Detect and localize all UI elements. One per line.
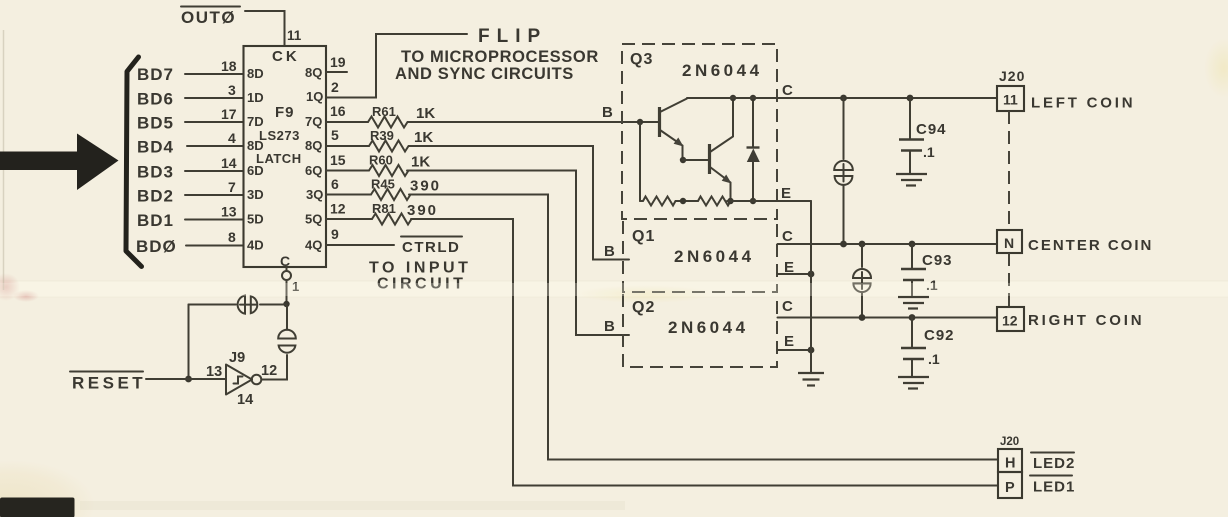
svg-text:C: C <box>280 253 290 269</box>
svg-text:14: 14 <box>221 155 237 171</box>
svg-text:R81: R81 <box>372 201 396 216</box>
svg-text:12: 12 <box>330 201 346 217</box>
svg-text:7: 7 <box>228 179 236 195</box>
junction P2 bottom on Q2 C rail <box>859 314 866 321</box>
svg-text:7D: 7D <box>247 114 264 129</box>
svg-text:19: 19 <box>330 54 346 70</box>
svg-text:E: E <box>784 333 794 350</box>
black crop bar bottom-left <box>0 498 75 517</box>
svg-text:C94: C94 <box>916 121 947 138</box>
svg-text:.1: .1 <box>923 144 935 160</box>
svg-text:.1: .1 <box>928 351 940 367</box>
svg-text:R39: R39 <box>370 128 394 143</box>
svg-text:12: 12 <box>261 363 277 379</box>
connector J20 pin 12 box <box>997 307 1024 331</box>
svg-text:BD5: BD5 <box>137 114 174 133</box>
transistor Q1 package (dashed box) <box>623 221 777 292</box>
connector pair P3 (horizontal) <box>238 296 258 314</box>
IC F9 LS273 latch body <box>244 46 327 267</box>
net label LED1 (active low) <box>1030 476 1075 496</box>
junction Q3b emitter on E rail <box>727 198 733 204</box>
svg-text:R60: R60 <box>369 153 393 168</box>
svg-text:390: 390 <box>410 178 441 195</box>
svg-text:8: 8 <box>228 229 236 245</box>
wire BD7 to pin 18 <box>185 73 244 75</box>
resistor R39 <box>369 141 409 152</box>
svg-text:8D: 8D <box>247 138 264 153</box>
wire RESET to inverter input <box>146 378 226 380</box>
svg-text:H: H <box>1005 456 1015 472</box>
annotation arrow (data bus pointer) <box>0 134 119 191</box>
resistor R81 <box>372 214 412 225</box>
connector J20 pin 11 box <box>997 86 1024 111</box>
svg-text:CTRLD: CTRLD <box>402 239 460 256</box>
transistor Q3a base bar <box>658 107 661 137</box>
wire pin 9 to CTRLD <box>326 244 394 246</box>
svg-text:12: 12 <box>1002 313 1018 329</box>
svg-text:E: E <box>781 185 791 202</box>
svg-text:6D: 6D <box>247 163 264 178</box>
svg-text:C92: C92 <box>924 327 955 344</box>
svg-text:R61: R61 <box>372 104 396 119</box>
wire connector P4 to clear node <box>286 306 288 330</box>
wire R60 to Q2 base <box>407 171 629 336</box>
wire emitter ground leg <box>810 201 812 373</box>
svg-text:390: 390 <box>407 202 438 219</box>
svg-text:BD4: BD4 <box>137 138 174 157</box>
junction C92 top on Q2 C rail <box>909 314 916 321</box>
junction Q3b collector on C rail <box>730 95 736 101</box>
svg-text:J9: J9 <box>229 350 245 366</box>
wire node to connector P3 <box>260 304 287 306</box>
junction Q2 emitter on ground leg <box>808 347 815 354</box>
junction Q3a emitter resistor node <box>680 198 686 204</box>
svg-text:16: 16 <box>330 103 346 119</box>
connector pair P1 (vertical, with pin) <box>834 161 853 185</box>
diode D internal (E to C) <box>747 98 760 201</box>
svg-text:5D: 5D <box>247 212 264 227</box>
svg-text:C: C <box>782 298 793 315</box>
svg-text:C: C <box>782 82 793 99</box>
svg-text:F9: F9 <box>275 104 295 121</box>
connector J20 pin N box <box>997 230 1022 253</box>
junction C94 top on Q3 C rail <box>907 95 914 102</box>
wire R39 to Q1 base <box>409 146 629 260</box>
svg-text:17: 17 <box>221 106 237 122</box>
svg-text:J20: J20 <box>1000 436 1019 448</box>
svg-text:AND SYNC CIRCUITS: AND SYNC CIRCUITS <box>395 65 574 83</box>
svg-text:Q1: Q1 <box>632 228 655 245</box>
svg-text:BD3: BD3 <box>137 163 174 182</box>
svg-text:13: 13 <box>206 364 222 380</box>
wire pin 5 to R39 <box>326 145 369 147</box>
capacitor C93 <box>901 244 926 297</box>
wire connector P3 to left leg <box>189 304 237 306</box>
svg-text:13: 13 <box>221 204 237 220</box>
pin 19 stub wire <box>326 71 347 73</box>
svg-text:OUTØ: OUTØ <box>181 8 236 27</box>
svg-text:1K: 1K <box>416 105 435 122</box>
svg-text:Q2: Q2 <box>632 299 655 316</box>
svg-text:BD7: BD7 <box>137 65 174 84</box>
wire pin 6 to R45 <box>326 194 371 196</box>
wire BD0 to pin 8 <box>186 245 244 247</box>
junction diode anode on E rail <box>750 198 756 204</box>
transistor Q3b base bar <box>708 144 711 174</box>
capacitor C92 <box>901 318 926 378</box>
svg-text:1K: 1K <box>414 129 433 146</box>
junction C93 top on Q1 C rail <box>909 241 916 248</box>
junction Q3a emitter to Q3b base <box>680 157 686 163</box>
svg-text:LEFT COIN: LEFT COIN <box>1031 95 1135 112</box>
wire Q1 emitter <box>778 273 812 275</box>
wire connector P2 to Q2 C rail <box>861 292 863 318</box>
svg-text:2N6044: 2N6044 <box>674 247 755 266</box>
wire left leg down to RESET node <box>188 305 190 380</box>
wire down to connector P2 <box>861 244 863 267</box>
svg-text:1D: 1D <box>247 90 264 105</box>
wire Q1 collector to J20-N <box>778 243 998 245</box>
wire R45 to J20-H LED2 <box>409 195 998 460</box>
ground (C93) <box>898 297 929 309</box>
wire pin 16 to R61 <box>326 121 368 123</box>
dashed connector body 11-N <box>1008 111 1010 230</box>
svg-text:15: 15 <box>330 152 346 168</box>
ground (emitter leg) <box>798 373 824 386</box>
wire OUT0 to CK pin 11 <box>245 11 285 46</box>
svg-text:3: 3 <box>228 82 236 98</box>
svg-text:1K: 1K <box>411 154 430 171</box>
svg-text:BD2: BD2 <box>137 187 174 206</box>
svg-text:CENTER COIN: CENTER COIN <box>1028 237 1153 254</box>
wire E rail of Q3 <box>727 200 811 202</box>
svg-text:1Q: 1Q <box>306 89 323 104</box>
svg-text:5: 5 <box>331 127 339 143</box>
transistor Q3a emitter with arrow <box>660 130 684 160</box>
junction RESET node <box>185 376 192 383</box>
resistor Q3 internal R1 <box>640 197 679 206</box>
svg-text:11: 11 <box>287 28 302 43</box>
resistor R45 <box>371 189 411 200</box>
svg-text:BD1: BD1 <box>137 211 174 230</box>
svg-text:RIGHT COIN: RIGHT COIN <box>1028 312 1144 329</box>
wire 1Q to FLIP <box>326 34 467 98</box>
wire rail to emitter junction <box>678 200 698 202</box>
wire connector P1 to Q1 C rail <box>843 185 845 244</box>
resistor R61 <box>368 117 408 128</box>
wire BD3 to pin 14 <box>185 170 244 172</box>
junction P1 bottom on Q1 C rail <box>840 241 847 248</box>
transistor Q3 package (dashed box) <box>622 44 777 219</box>
transistor Q3b emitter with arrow <box>710 167 732 201</box>
net label LED2 (active low) <box>1031 453 1075 473</box>
wire BD5 to pin 17 <box>185 121 244 123</box>
net label OUT0 (active low) <box>181 7 240 28</box>
svg-text:8Q: 8Q <box>305 65 322 80</box>
ground (C92) <box>898 377 929 389</box>
svg-text:8Q: 8Q <box>305 138 322 153</box>
bus bracket <box>126 57 142 267</box>
svg-text:18: 18 <box>221 58 237 74</box>
wire Q2 emitter <box>778 349 812 351</box>
wire Q3 collector rail to J20-11 <box>687 97 997 99</box>
svg-text:9: 9 <box>331 226 339 242</box>
resistor R60 <box>369 165 409 176</box>
svg-text:Q3: Q3 <box>630 51 653 68</box>
junction Q1 emitter on ground leg <box>808 271 815 278</box>
svg-text:TO INPUT: TO INPUT <box>369 260 471 277</box>
svg-text:4D: 4D <box>247 238 264 253</box>
dashed connector body N-12 <box>1008 253 1010 307</box>
resistor Q3 internal R2 <box>698 197 731 206</box>
wire BD1 to pin 13 <box>185 219 244 221</box>
ground (C94) <box>896 174 927 186</box>
wire R61 to Q3 base <box>408 121 659 123</box>
wire inverter output up to connector P4 <box>262 355 288 380</box>
svg-text:CK: CK <box>272 48 300 65</box>
net label RESET (active low) <box>70 372 146 393</box>
svg-text:2: 2 <box>331 79 339 95</box>
junction diode top on C rail <box>750 95 756 101</box>
svg-text:N: N <box>1004 235 1014 251</box>
svg-text:3D: 3D <box>247 187 264 202</box>
capacitor C94 <box>899 98 924 174</box>
svg-text:LS273: LS273 <box>259 128 300 143</box>
svg-text:R45: R45 <box>371 177 395 192</box>
wire clear bubble to node <box>286 267 288 304</box>
svg-text:B: B <box>602 104 613 121</box>
svg-text:2N6044: 2N6044 <box>668 318 749 337</box>
wire BD6 to pin 3 <box>185 97 244 99</box>
connector J20 pin P box <box>998 472 1022 498</box>
svg-text:6Q: 6Q <box>305 163 322 178</box>
connector pair P2 (vertical, with pin) <box>853 269 871 292</box>
svg-text:4: 4 <box>228 130 236 146</box>
svg-text:LED2: LED2 <box>1033 455 1075 472</box>
wire Q2 collector to J20-12 <box>778 317 998 319</box>
svg-text:FLIP: FLIP <box>478 26 547 47</box>
wire pin 15 to R60 <box>326 170 369 172</box>
svg-text:8D: 8D <box>247 66 264 81</box>
transistor Q3a collector <box>660 99 687 113</box>
svg-text:TO MICROPROCESSOR: TO MICROPROCESSOR <box>401 48 599 66</box>
junction Q3 base node <box>637 119 643 125</box>
wire R81 to J20-P LED1 <box>411 219 998 486</box>
inverter J9 (schmitt) <box>226 365 261 395</box>
transistor Q2 package (dashed box) <box>623 294 777 367</box>
svg-text:RESET: RESET <box>72 374 146 393</box>
junction clear node <box>283 301 289 307</box>
wire Q3b base <box>683 159 708 161</box>
svg-text:3Q: 3Q <box>306 187 323 202</box>
svg-text:LED1: LED1 <box>1033 479 1075 496</box>
crease veil on top <box>0 283 1228 296</box>
svg-text:C93: C93 <box>922 252 953 269</box>
svg-text:BD6: BD6 <box>137 90 174 109</box>
wire down to connector P1 <box>843 98 845 159</box>
transistor Q3b collector <box>710 98 733 152</box>
svg-text:6: 6 <box>331 176 339 192</box>
wire Q3 base node down to resistor rail <box>639 122 641 201</box>
clear pin inversion bubble <box>282 271 291 280</box>
net label CTRLD (active low) <box>401 237 462 257</box>
wire pin 12 to R81 <box>326 218 372 220</box>
svg-text:P: P <box>1005 480 1015 496</box>
svg-text:11: 11 <box>1003 92 1018 108</box>
junction C rail / connector P1 top <box>840 95 847 102</box>
svg-text:BDØ: BDØ <box>136 237 177 256</box>
wire BD4 to pin 4 <box>187 145 244 147</box>
svg-text:B: B <box>604 243 615 260</box>
svg-text:J20: J20 <box>999 68 1025 84</box>
svg-text:C: C <box>782 228 793 245</box>
connector pair P4 (vertical) <box>278 330 296 353</box>
svg-text:7Q: 7Q <box>305 114 322 129</box>
svg-text:B: B <box>604 318 615 335</box>
svg-text:5Q: 5Q <box>305 212 322 227</box>
svg-text:4Q: 4Q <box>305 238 322 253</box>
svg-text:14: 14 <box>237 392 253 408</box>
junction Q1 C rail / connector P2 top <box>859 241 866 248</box>
svg-text:2N6044: 2N6044 <box>682 61 763 80</box>
wire BD2 to pin 7 <box>185 194 244 196</box>
connector J20 pin H box <box>998 449 1022 472</box>
